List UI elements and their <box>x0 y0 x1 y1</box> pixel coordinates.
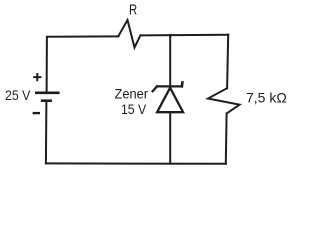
wire: bottom horizontal return wire <box>46 162 226 164</box>
wire: source negative terminal down to bottom-left corner <box>45 101 48 164</box>
svg-text:Zener: Zener <box>115 85 149 101</box>
svg-text:R: R <box>129 3 137 19</box>
battery source 25 V long plate (+) <box>35 92 60 95</box>
wire: right vertical from top-right corner down to resistor R2 <box>227 35 228 89</box>
wire: top horizontal from R through node A to top-right corner <box>140 34 228 37</box>
svg-text:15 V: 15 V <box>121 101 147 117</box>
minus sign of source <box>33 112 40 114</box>
resistor R2 7.5 kOhm (vertical zigzag) <box>208 88 240 113</box>
label 15 V <box>121 101 147 117</box>
svg-text:7,5 kΩ: 7,5 kΩ <box>246 90 287 106</box>
label 25 V <box>5 87 31 103</box>
resistor R <box>118 20 140 48</box>
zener cathode bar right bent tick <box>181 82 184 86</box>
zener cathode bar left bent tick <box>153 86 157 91</box>
zener diode D1 anode triangle <box>157 88 183 112</box>
label Zener <box>115 85 149 101</box>
plus sign of source <box>33 73 41 81</box>
wire: source positive terminal up-left vertical to top-left corner <box>46 37 48 92</box>
zener diode D1 cathode bar <box>157 85 182 87</box>
label 7,5 kOhm <box>246 90 287 106</box>
wire: zener anode down to bottom wire <box>169 112 171 163</box>
wire: zener branch vertical from node A down to zener cathode <box>169 35 171 87</box>
wire: top-left horizontal from corner to resistor R <box>47 35 118 37</box>
battery source short plate (-) <box>41 99 52 102</box>
wire: right vertical from R2 down to bottom-right corner <box>225 114 228 164</box>
svg-text:25 V: 25 V <box>5 87 31 103</box>
node A: junction of top wire and zener branch <box>169 35 171 36</box>
label R <box>129 3 137 19</box>
